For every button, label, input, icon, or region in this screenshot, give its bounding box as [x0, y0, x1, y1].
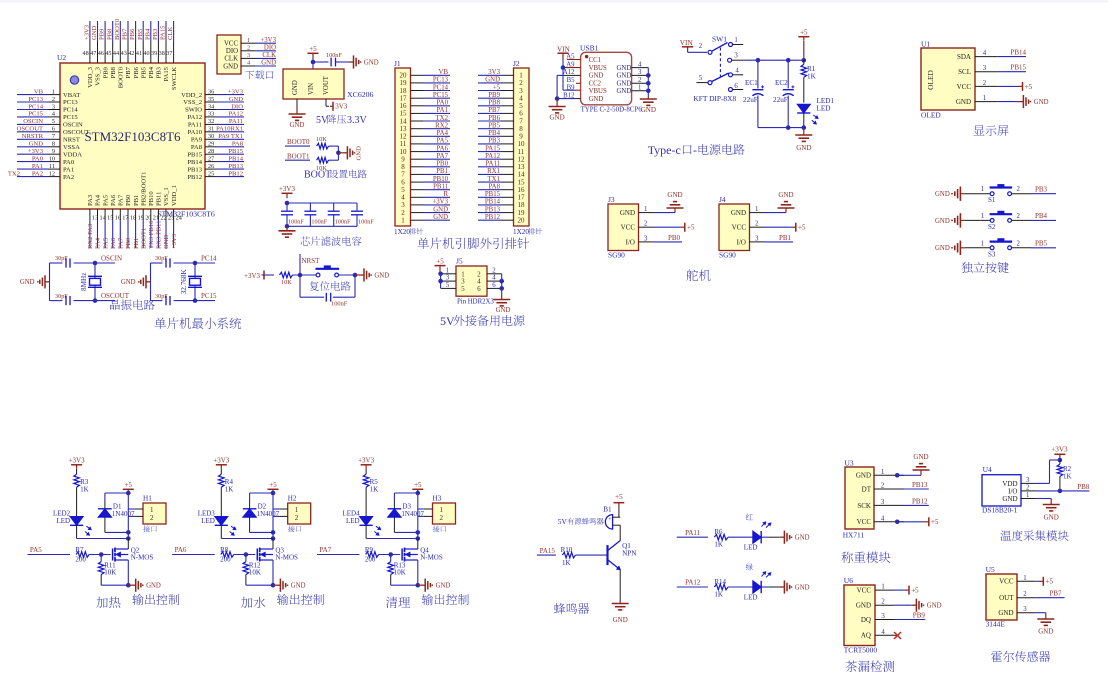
svg-text:GND: GND	[589, 73, 604, 80]
svg-text:PA9: PA9	[191, 137, 203, 144]
svg-text:2: 2	[440, 514, 444, 522]
ground	[296, 113, 298, 114]
ground	[338, 152, 343, 154]
svg-text:CC1: CC1	[589, 57, 601, 64]
svg-text:J3: J3	[608, 195, 615, 204]
svg-text:44: 44	[113, 50, 119, 57]
svg-text:+5: +5	[414, 481, 422, 489]
svg-text:PB8: PB8	[1077, 483, 1090, 491]
ground	[897, 474, 921, 476]
svg-text:PA9 TX1: PA9 TX1	[218, 133, 243, 140]
svg-text:GND: GND	[1034, 99, 1049, 106]
svg-text:PB0: PB0	[668, 234, 681, 242]
wire	[150, 263, 152, 301]
svg-text:OSCOUT: OSCOUT	[17, 126, 43, 133]
svg-text:5V: 5V	[558, 517, 568, 526]
svg-text:1: 1	[755, 206, 758, 213]
svg-text:24: 24	[176, 215, 182, 222]
svg-text:GND: GND	[617, 81, 632, 88]
svg-text:R6: R6	[714, 528, 723, 536]
svg-text:GND: GND	[121, 279, 136, 286]
svg-text:10K: 10K	[394, 569, 406, 577]
svg-text:SCK: SCK	[857, 502, 871, 510]
svg-text:PB4: PB4	[148, 66, 155, 78]
svg-text:U3: U3	[845, 459, 854, 468]
svg-text:PB14: PB14	[485, 199, 501, 206]
svg-text:46: 46	[98, 50, 104, 57]
svg-text:GND: GND	[935, 245, 950, 252]
svg-text:PA5: PA5	[102, 194, 109, 206]
wire I/O PB8	[1036, 490, 1060, 492]
svg-text:S3: S3	[988, 250, 996, 258]
svg-text:GND: GND	[935, 191, 950, 198]
svg-text:1: 1	[734, 37, 737, 44]
svg-text:XC6206: XC6206	[347, 90, 374, 99]
svg-text:22uF: 22uF	[743, 96, 758, 104]
svg-text:6: 6	[492, 282, 496, 289]
svg-text:2: 2	[699, 43, 703, 50]
wire pin3 to caps	[732, 59, 744, 61]
svg-text:BOOT1: BOOT1	[140, 228, 147, 249]
svg-text:PB6: PB6	[129, 28, 136, 40]
svg-text:PB11: PB11	[156, 192, 163, 206]
svg-text:GND: GND	[856, 472, 871, 480]
svg-text:1: 1	[401, 217, 405, 225]
svg-text:GND: GND	[229, 96, 244, 103]
svg-text:PA8: PA8	[191, 144, 203, 151]
node PB5	[1031, 247, 1056, 249]
svg-text:30pF: 30pF	[55, 255, 68, 262]
resistor 10K	[317, 157, 329, 163]
svg-text:3: 3	[983, 65, 987, 72]
svg-text:PB13: PB13	[187, 166, 202, 173]
caption pin headers	[417, 238, 529, 249]
svg-text:GND: GND	[374, 272, 389, 279]
svg-text:PB3: PB3	[1035, 185, 1048, 193]
svg-text:U5: U5	[986, 565, 995, 574]
svg-text:BOOT0: BOOT0	[114, 18, 121, 40]
svg-text:1: 1	[881, 469, 884, 476]
svg-text:TX3 PB10: TX3 PB10	[148, 220, 155, 249]
wire GND	[1036, 498, 1052, 500]
LED LED3	[215, 517, 228, 526]
svg-text:PB14: PB14	[187, 159, 202, 166]
power +5	[653, 226, 680, 228]
diode D2 1N4007	[249, 502, 251, 509]
svg-text:PB5: PB5	[137, 28, 144, 40]
svg-text:PA15: PA15	[160, 25, 167, 40]
svg-text:GND: GND	[290, 122, 305, 129]
diode D3 1N4007	[393, 502, 395, 509]
wire VIN bus	[562, 60, 564, 91]
ground earth	[1045, 618, 1047, 619]
svg-text:GND: GND	[485, 77, 500, 84]
svg-text:PA11: PA11	[229, 118, 243, 125]
svg-text:PA11: PA11	[685, 529, 701, 537]
svg-text:PA4: PA4	[95, 237, 102, 249]
svg-text:OSCIN: OSCIN	[23, 118, 43, 125]
svg-text:OSCOUT: OSCOUT	[101, 292, 130, 300]
svg-text:100nF: 100nF	[326, 52, 342, 59]
svg-text:1K: 1K	[225, 486, 234, 494]
svg-text:RX2: RX2	[435, 123, 448, 130]
svg-text:GND: GND	[223, 63, 238, 70]
svg-text:PB7: PB7	[1050, 590, 1063, 598]
svg-text:PB3: PB3	[152, 28, 159, 40]
svg-text:2: 2	[477, 271, 481, 278]
node PB7	[1036, 597, 1065, 599]
svg-text:GND: GND	[589, 96, 604, 103]
svg-text:+3V3: +3V3	[228, 88, 244, 95]
svg-text:RX3 PB11: RX3 PB11	[156, 220, 163, 249]
svg-text:42: 42	[128, 50, 134, 57]
svg-text:PC13: PC13	[63, 99, 78, 106]
node PB12	[904, 504, 929, 506]
svg-text:PB15: PB15	[187, 151, 202, 158]
svg-text:GND: GND	[795, 584, 810, 591]
svg-text:40: 40	[143, 50, 149, 57]
resistor R14 1K	[714, 584, 728, 590]
svg-text:+5: +5	[269, 481, 277, 489]
svg-text:PA15: PA15	[540, 547, 556, 555]
wire left bus	[440, 274, 442, 289]
svg-text:1: 1	[983, 95, 986, 102]
svg-text:4: 4	[477, 279, 481, 286]
svg-text:1K: 1K	[562, 559, 571, 567]
svg-text:2: 2	[295, 514, 299, 522]
ground	[998, 101, 1018, 103]
ground	[1036, 612, 1046, 614]
caption jingzhen	[110, 299, 155, 310]
svg-text:2: 2	[1017, 213, 1021, 220]
svg-text:PA4: PA4	[437, 130, 449, 137]
crystal 32.768K	[188, 275, 202, 277]
svg-text:B5: B5	[567, 77, 576, 84]
wire pin1 stub	[733, 44, 744, 46]
svg-text:2: 2	[881, 483, 885, 490]
svg-text:PA7: PA7	[118, 237, 125, 249]
svg-text:VIN: VIN	[557, 46, 571, 54]
svg-text:2: 2	[1023, 591, 1027, 598]
svg-text:AQ: AQ	[861, 632, 871, 640]
svg-text:5V: 5V	[316, 115, 329, 126]
svg-text:PB14: PB14	[228, 155, 243, 162]
svg-text:PA7: PA7	[118, 194, 125, 206]
no connect X	[894, 634, 897, 636]
capacitor 30pF bottom 8MHz	[65, 296, 67, 305]
node PB4	[1031, 219, 1056, 221]
svg-text:PB0: PB0	[436, 161, 448, 168]
capacitor 100nF	[325, 293, 327, 302]
svg-text:2: 2	[492, 267, 496, 274]
svg-text:SWCLK: SWCLK	[171, 67, 178, 90]
wire bottom of diode	[394, 531, 417, 533]
svg-text:GND: GND	[261, 60, 276, 67]
svg-text:+3V3: +3V3	[279, 185, 296, 193]
svg-text:VSS_3: VSS_3	[95, 66, 102, 85]
caption	[96, 597, 120, 608]
svg-text:USB1: USB1	[580, 44, 599, 53]
resistor R1 1K	[803, 41, 805, 60]
svg-text:1: 1	[981, 186, 984, 193]
svg-text:PC15: PC15	[433, 92, 449, 99]
caption buzzer	[554, 603, 589, 614]
svg-text:I/O: I/O	[737, 238, 746, 246]
svg-text:+3V3: +3V3	[1051, 446, 1068, 454]
svg-text:CLK: CLK	[262, 52, 276, 59]
svg-text:5: 5	[446, 282, 450, 289]
svg-text:VDD_3: VDD_3	[87, 66, 94, 88]
svg-text:PB2/BOOT1: PB2/BOOT1	[140, 172, 147, 206]
wire B5 stub	[576, 82, 581, 84]
svg-text:PB4: PB4	[1035, 212, 1048, 220]
svg-text:LED: LED	[744, 544, 758, 552]
svg-text:6: 6	[477, 286, 481, 293]
svg-text:GND: GND	[998, 609, 1013, 617]
svg-text:NPN: NPN	[622, 550, 637, 558]
svg-text:30pF: 30pF	[55, 293, 68, 300]
svg-text:1: 1	[1023, 575, 1026, 582]
svg-text:+3V3: +3V3	[432, 199, 448, 206]
resistor 10K	[317, 143, 329, 149]
svg-text:GND: GND	[935, 218, 950, 225]
switch blades	[712, 43, 728, 52]
svg-text:1X20: 1X20	[394, 228, 410, 236]
svg-text:2: 2	[755, 221, 759, 228]
svg-text:PB8: PB8	[106, 28, 113, 40]
svg-text:1: 1	[247, 37, 250, 44]
svg-text:PA0: PA0	[437, 100, 449, 107]
ground	[894, 604, 911, 606]
svg-text:GND: GND	[436, 583, 451, 590]
svg-text:U6: U6	[844, 576, 853, 585]
node PB9	[894, 619, 925, 621]
svg-text:RX1: RX1	[487, 168, 500, 175]
svg-text:DT: DT	[862, 485, 872, 493]
svg-text:PC15: PC15	[63, 114, 78, 121]
resistor R2 1K	[1059, 460, 1061, 464]
svg-text:3V3: 3V3	[335, 103, 348, 111]
svg-text:8MHz: 8MHz	[80, 273, 88, 291]
svg-text:38: 38	[159, 50, 165, 57]
ground	[146, 281, 151, 283]
svg-text:VBUS: VBUS	[589, 88, 607, 95]
svg-text:Type-c: Type-c	[648, 143, 681, 157]
svg-text:PA2: PA2	[63, 174, 74, 181]
svg-text:1K: 1K	[807, 73, 817, 81]
svg-text:EC2: EC2	[775, 79, 788, 87]
svg-text:OSCOUT: OSCOUT	[63, 129, 89, 136]
svg-text:1: 1	[881, 584, 884, 591]
svg-text:BOOT1: BOOT1	[287, 152, 310, 160]
svg-text:N-MOS: N-MOS	[275, 554, 298, 562]
resistor R10 1K	[562, 552, 575, 558]
svg-text:4: 4	[881, 515, 885, 522]
wire buzzer	[618, 508, 620, 517]
svg-text:VOUT: VOUT	[323, 75, 330, 95]
svg-text:J5: J5	[456, 257, 463, 266]
svg-text:PA12: PA12	[485, 153, 500, 160]
svg-text:R10: R10	[561, 546, 573, 554]
capacitor 30pF top 8MHz	[65, 258, 67, 267]
wire rails	[287, 202, 357, 204]
svg-text:VSSA: VSSA	[63, 144, 80, 151]
svg-text:U1: U1	[921, 40, 930, 49]
svg-text:PA12: PA12	[685, 579, 701, 587]
svg-text:LED: LED	[817, 105, 831, 113]
node PB3	[1031, 193, 1056, 195]
wire emitter	[619, 570, 621, 602]
svg-text:VDD_2: VDD_2	[181, 92, 202, 99]
ground	[286, 226, 288, 231]
svg-text:GND: GND	[617, 88, 632, 95]
power +5	[897, 521, 924, 523]
svg-text:PB12: PB12	[912, 497, 928, 505]
svg-text:30pF: 30pF	[155, 293, 168, 300]
svg-text:PA12: PA12	[229, 111, 243, 118]
svg-text:DIO: DIO	[264, 45, 276, 52]
svg-text:1: 1	[150, 506, 154, 514]
svg-text:GND: GND	[91, 25, 98, 40]
svg-text:47: 47	[90, 50, 96, 57]
svg-text:OLED: OLED	[926, 69, 935, 89]
svg-text:41: 41	[136, 50, 142, 57]
svg-text:DIO: DIO	[231, 103, 243, 110]
svg-text:PB8: PB8	[110, 66, 117, 78]
capacitor 100nF	[330, 58, 332, 67]
wire pin5 stub	[696, 82, 708, 84]
svg-text:32.768K: 32.768K	[180, 269, 188, 295]
svg-text:R14: R14	[714, 578, 726, 586]
ground	[778, 536, 781, 538]
wire top rail	[250, 492, 273, 494]
wire SCL PB15	[998, 71, 1026, 73]
svg-text:GND: GND	[796, 144, 811, 152]
wire pin4 stub	[733, 74, 744, 76]
svg-text:SWIO: SWIO	[185, 107, 202, 114]
node PB13	[904, 488, 929, 490]
svg-text:+5: +5	[309, 45, 317, 53]
svg-text:30pF: 30pF	[155, 255, 168, 262]
caption filter caps	[300, 236, 361, 245]
svg-text:PB9: PB9	[488, 92, 500, 99]
regulator U? XC6206	[283, 69, 344, 99]
svg-text:2: 2	[1017, 186, 1021, 193]
svg-text:VB: VB	[439, 69, 449, 76]
ground	[355, 274, 360, 276]
svg-text:5: 5	[461, 286, 465, 293]
wire A5 stub	[567, 59, 581, 61]
svg-text:PB5: PB5	[1035, 240, 1048, 248]
svg-text:DIO: DIO	[226, 48, 238, 55]
svg-text:LED: LED	[346, 517, 360, 525]
capacitor 100nF C2	[309, 203, 311, 211]
resistor R5 1K	[365, 469, 367, 474]
svg-text:PC15: PC15	[201, 292, 217, 300]
svg-text:LED: LED	[744, 594, 758, 602]
svg-text:PB6: PB6	[133, 66, 140, 78]
svg-text:PB7: PB7	[125, 66, 132, 78]
svg-text:GND: GND	[731, 209, 746, 217]
svg-text:1: 1	[638, 85, 641, 92]
svg-text:DS18B20-1: DS18B20-1	[982, 506, 1018, 515]
svg-text:NRSTR: NRSTR	[22, 133, 44, 140]
svg-text:2: 2	[881, 599, 885, 606]
svg-text:J1: J1	[394, 59, 401, 68]
wire bottom of diode	[250, 531, 273, 533]
svg-text:VDD_1: VDD_1	[171, 185, 178, 206]
wire A9	[563, 67, 581, 69]
svg-text:PA5: PA5	[30, 546, 42, 554]
capacitor EC2 22uF	[787, 60, 789, 88]
wire B12	[576, 98, 581, 100]
svg-text:+5: +5	[1046, 578, 1054, 586]
LED1	[797, 104, 810, 113]
button S reset	[316, 273, 320, 277]
wire drain	[272, 539, 274, 550]
caption buttons	[961, 262, 1008, 273]
svg-text:39: 39	[151, 50, 157, 57]
svg-text:PA5: PA5	[437, 138, 449, 145]
wire top rail	[105, 492, 128, 494]
svg-text:DQ: DQ	[861, 616, 871, 624]
svg-text:EC1: EC1	[745, 79, 758, 87]
ground	[349, 61, 354, 63]
svg-text:PA15: PA15	[485, 145, 500, 152]
capacitor 30pF top 32.768K	[165, 258, 167, 267]
svg-text:H1: H1	[143, 495, 152, 503]
LED	[753, 531, 761, 543]
svg-text:1K: 1K	[1063, 473, 1072, 481]
ground	[1050, 504, 1052, 505]
svg-text:PA1: PA1	[437, 107, 448, 114]
svg-text:N-MOS: N-MOS	[420, 554, 443, 562]
wire	[312, 58, 314, 69]
svg-text:-: -	[693, 143, 697, 157]
svg-text:GND: GND	[29, 141, 44, 148]
capacitor 100nF C1	[286, 203, 288, 211]
svg-text:PA10RX1: PA10RX1	[216, 126, 243, 133]
svg-text:GND: GND	[927, 603, 942, 610]
wire B9	[576, 89, 581, 91]
svg-text:PB3: PB3	[156, 66, 163, 78]
svg-text:PC13: PC13	[433, 77, 449, 84]
svg-text:CLK: CLK	[167, 27, 174, 40]
svg-text:KFT DIP-8X8: KFT DIP-8X8	[693, 94, 736, 103]
svg-text:2: 2	[983, 80, 987, 87]
svg-text:GND: GND	[913, 453, 928, 461]
svg-text:PC14: PC14	[433, 84, 449, 91]
svg-text:43: 43	[121, 50, 127, 57]
resistor R9 200	[366, 552, 379, 558]
svg-text:NRST: NRST	[302, 257, 321, 265]
svg-text:PB6: PB6	[488, 115, 500, 122]
svg-text:1K: 1K	[714, 541, 723, 549]
caption temperature module	[1000, 530, 1068, 541]
wire	[49, 263, 51, 301]
svg-text:PB10: PB10	[433, 176, 449, 183]
svg-text:R8: R8	[220, 546, 229, 554]
svg-text:10K: 10K	[281, 279, 292, 286]
capacitor 100nF C3	[333, 203, 335, 211]
node PB0	[653, 241, 682, 243]
svg-text:PB13: PB13	[228, 163, 243, 170]
svg-text:TCRT5000: TCRT5000	[844, 646, 878, 655]
svg-text:PA5: PA5	[102, 237, 109, 249]
svg-text:2: 2	[1017, 240, 1021, 247]
svg-text:100nF: 100nF	[311, 219, 327, 226]
svg-text:GND: GND	[364, 59, 379, 66]
